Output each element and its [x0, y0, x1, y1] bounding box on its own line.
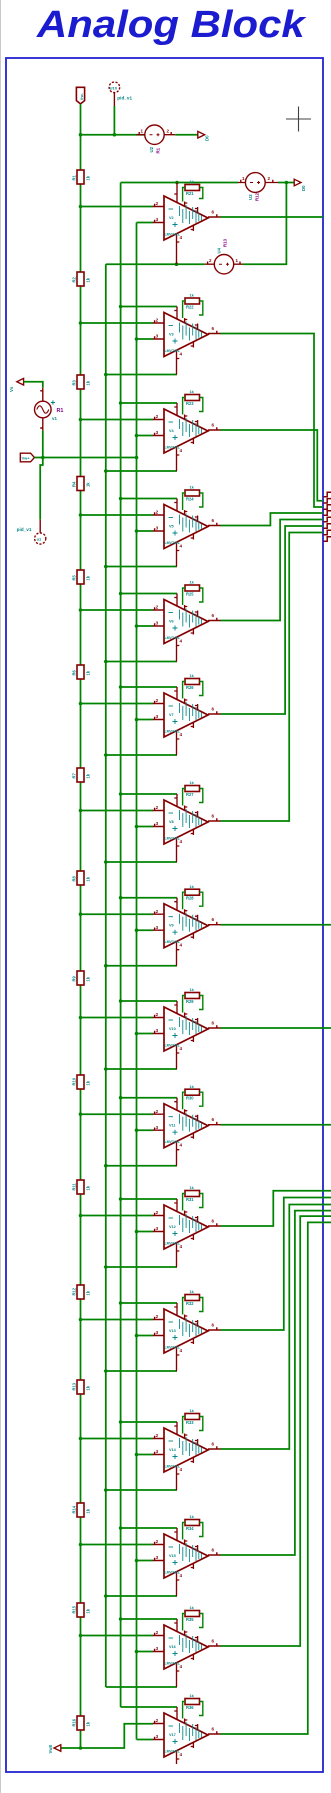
pin 2 of V16	[153, 1633, 164, 1636]
svg-text:V12: V12	[169, 1225, 176, 1229]
wire: R29 left leg	[183, 996, 185, 1013]
wire: ladder bottom to low reference	[61, 1730, 81, 1748]
pin 5 of V10	[191, 1036, 194, 1042]
svg-text:6: 6	[212, 1117, 215, 1122]
svg-text:2: 2	[156, 1630, 159, 1635]
svg-text:LMV741L: LMV741L	[165, 541, 181, 545]
pin 5 of V13	[191, 1338, 194, 1344]
wire: V- rail of V5	[106, 566, 177, 568]
pin 1 of U4	[234, 262, 243, 265]
svg-text:V11: V11	[169, 1124, 176, 1128]
svg-text:U3: U3	[248, 194, 253, 200]
op-amp V12 (LMV741)	[164, 1205, 208, 1249]
wire: R35 left leg	[183, 1614, 185, 1631]
op-amp V3 (LMV741)	[164, 313, 208, 357]
sheet pin P6 on right border	[324, 524, 331, 528]
resistor R32 (offset trim)	[185, 1289, 200, 1306]
wire: V+ rail of V5	[121, 498, 177, 500]
wire: output of V15 off-sheet right	[221, 1211, 331, 1555]
wire: R24 right leg	[199, 493, 203, 507]
svg-text:LMV741L: LMV741L	[165, 730, 181, 734]
junction: U10 on top rail	[113, 133, 117, 137]
pin 2 of V9	[153, 912, 164, 915]
wire: output of V5 to sheet pin	[221, 513, 324, 526]
svg-text:R13: R13	[223, 238, 228, 247]
junction: Vin bus at V14	[135, 1453, 139, 1457]
wire: R30 right leg	[199, 1092, 203, 1106]
op-amp V14 (LMV741)	[164, 1428, 208, 1472]
svg-text:V3: V3	[169, 333, 174, 337]
svg-text:1k: 1k	[86, 277, 91, 282]
pin 3 of V13	[153, 1333, 164, 1336]
pin 7 of V2	[174, 183, 177, 203]
wire: V- rail of V13	[106, 1370, 177, 1372]
wire: R35 right leg	[199, 1614, 203, 1628]
resistor R31 (offset trim)	[185, 1185, 200, 1202]
svg-text:2: 2	[156, 510, 159, 515]
pin 7 of V9	[174, 898, 177, 911]
op-amp V11 (LMV741)	[164, 1104, 208, 1148]
wire: ladder tap to pin2 of V7	[81, 703, 154, 705]
wire: output of V9 off-sheet right	[221, 924, 331, 926]
junction: ladder bottom node	[79, 1746, 83, 1750]
junction: pin7 of V2 on V+ rail	[175, 181, 179, 185]
wire: R27 left leg	[183, 789, 185, 806]
wire: output of V16 off-sheet right	[221, 1216, 331, 1646]
wire: V- rail of V12	[106, 1266, 177, 1268]
svg-text:LMV741L: LMV741L	[165, 1140, 181, 1144]
wire: R36 right leg	[199, 1702, 203, 1716]
pin 5 of V2	[191, 225, 194, 231]
wire: R26 left leg	[183, 682, 185, 699]
junction: Vin bus at V16	[135, 1650, 139, 1654]
pin 6 of V11	[208, 1122, 221, 1125]
junction: V- bus at V11	[104, 1164, 108, 1168]
op-amp V15 (LMV741)	[164, 1534, 208, 1578]
pin 6 of V4	[208, 427, 221, 430]
pin 8 of V12	[195, 1216, 198, 1222]
wire: flag to V1 top	[24, 382, 43, 388]
pin 3 of V2	[153, 220, 164, 223]
svg-text:LMV741L: LMV741L	[165, 1346, 181, 1350]
input flag Vs (left arrow)	[17, 378, 24, 385]
junction: Vin bus at V15	[135, 1559, 139, 1563]
screenshot left edge line	[0, 0, 1, 1793]
wire: R34 right leg	[199, 1523, 203, 1537]
resistor R11 (ladder)	[72, 1180, 91, 1194]
junction: V- bus at V10	[104, 1067, 108, 1071]
pin 4 of V15	[177, 1572, 180, 1597]
svg-text:1k: 1k	[86, 575, 91, 580]
pin 8 of V14	[195, 1439, 198, 1445]
svg-text:R23: R23	[186, 401, 194, 406]
svg-text:D0: D0	[301, 185, 306, 191]
sheet pin P3 on right border	[324, 505, 331, 509]
svg-text:V8: V8	[169, 820, 174, 824]
pin 6 of V16	[208, 1643, 221, 1646]
labels of V1	[51, 400, 55, 404]
svg-text:2: 2	[156, 605, 159, 610]
wire: Vin bus to pin3 of V9	[137, 929, 154, 931]
sheet pin P7 on right border	[324, 530, 331, 534]
svg-text:6: 6	[212, 707, 215, 712]
pin 2 of V6	[153, 607, 164, 610]
svg-text:3: 3	[156, 621, 159, 626]
wire: U3 to flag	[278, 182, 294, 184]
svg-text:LMV741L: LMV741L	[165, 636, 181, 640]
wire: R33 left leg	[183, 1417, 185, 1434]
pin 1 of U2	[136, 132, 145, 135]
pin 8 of V9	[195, 915, 198, 921]
op-amp V17 (LMV741)	[164, 1713, 208, 1757]
svg-text:3: 3	[156, 1646, 159, 1651]
svg-text:2: 2	[156, 698, 159, 703]
svg-text:2: 2	[156, 1210, 159, 1215]
resistor R29 (offset trim)	[185, 987, 200, 1004]
pin 1 of V2	[185, 202, 188, 207]
wire: output of V17 off-sheet right	[221, 1222, 331, 1734]
junction: Vin bus at V13	[135, 1334, 139, 1338]
wire: Vin bus to pin3 of V10	[137, 1033, 154, 1035]
pin 4 of V14	[177, 1466, 180, 1491]
pin 4 of V10	[177, 1045, 180, 1070]
resistor R5 (ladder)	[72, 570, 91, 584]
svg-text:1k: 1k	[86, 670, 91, 675]
wire: Vin bus to pin3 of V5	[137, 530, 154, 532]
svg-text:1k: 1k	[86, 1080, 91, 1085]
resistor R21 (offset trim)	[185, 179, 200, 196]
pin 3 of V16	[153, 1649, 164, 1652]
pin 1 of V9	[185, 909, 188, 914]
pin 5 of V9	[191, 933, 194, 939]
pin 1 of V11	[185, 1109, 188, 1114]
svg-text:2: 2	[156, 201, 159, 206]
pin 1 of V13	[185, 1315, 188, 1320]
resistor R3 (ladder)	[72, 375, 91, 389]
pin 6 of V2	[208, 214, 221, 217]
svg-text:R30: R30	[186, 1096, 194, 1101]
svg-text:6: 6	[212, 1021, 215, 1026]
wire: V+ rail of V15	[121, 1527, 177, 1529]
wire: V+ rail of V11	[121, 1097, 177, 1099]
svg-text:R4: R4	[72, 481, 77, 487]
svg-text:V10: V10	[169, 1027, 176, 1031]
sheet pin P1 on right border	[324, 492, 331, 496]
junction: V+ bus at V16	[119, 1617, 123, 1621]
svg-text:R29: R29	[186, 999, 194, 1004]
pin 5 of V8	[191, 829, 194, 835]
wire: output of V3 to sheet pin	[221, 334, 324, 508]
pin 4 of V7	[177, 731, 180, 756]
resistor R26 (offset trim)	[185, 673, 200, 690]
svg-text:1k: 1k	[86, 1290, 91, 1295]
pin 2 of V13	[153, 1317, 164, 1320]
svg-text:3: 3	[156, 821, 159, 826]
svg-text:3: 3	[156, 1125, 159, 1130]
wire: R21 right leg	[199, 188, 203, 199]
junction: V+ bus at V12	[119, 1197, 123, 1201]
op-amp V7 (LMV741)	[164, 693, 208, 737]
wire: bottom node jog to V17 pin2	[81, 1724, 154, 1748]
svg-text:R24: R24	[186, 496, 194, 501]
svg-text:U4: U4	[217, 247, 222, 253]
svg-text:3: 3	[156, 1330, 159, 1335]
svg-text:R31: R31	[186, 1197, 194, 1202]
wire: V- rail of V4	[106, 470, 177, 472]
pin 8 of V13	[195, 1320, 198, 1326]
wire: Vin bus (x=137.5)	[136, 223, 138, 1740]
svg-text:Vw0: Vw0	[48, 1744, 53, 1753]
wire: R33 right leg	[199, 1417, 203, 1431]
svg-text:Vw-: Vw-	[79, 92, 84, 100]
wire: R36 left leg	[183, 1702, 185, 1719]
svg-text:U2: U2	[149, 146, 154, 152]
junction: Vin bus at V12	[135, 1230, 139, 1234]
svg-text:3: 3	[156, 925, 159, 930]
svg-text:1k: 1k	[86, 976, 91, 981]
svg-text:LMV741L: LMV741L	[165, 1750, 181, 1754]
wire: V- supply bus (x=105.4)	[105, 264, 107, 1687]
wire: U2 to flag D0	[175, 134, 197, 136]
pin 1 of U3	[238, 180, 245, 183]
junction: ladder tap V4	[79, 418, 83, 422]
wire: Vin bus to pin3 of V14	[137, 1454, 154, 1456]
pin 4 of V16	[177, 1663, 180, 1688]
wire: Vin bus to pin3 of V13	[137, 1335, 154, 1337]
pin 5 of V16	[191, 1654, 194, 1660]
wire: R31 right leg	[199, 1194, 203, 1208]
svg-text:2: 2	[156, 805, 159, 810]
wire: ladder tap to pin2 of V8	[81, 810, 154, 812]
wire: R30 left leg	[183, 1092, 185, 1109]
pin 2 of U4	[205, 262, 215, 265]
svg-text:3: 3	[156, 1734, 159, 1739]
pin 3 of V17	[153, 1737, 164, 1740]
pin 2 of V17	[153, 1721, 164, 1724]
svg-text:3: 3	[156, 1028, 159, 1033]
junction: Vin bus at V5	[135, 529, 139, 533]
pin 5 of V17	[191, 1742, 194, 1748]
svg-text:R33: R33	[186, 1420, 194, 1425]
svg-text:V14: V14	[169, 1448, 177, 1452]
svg-text:6: 6	[212, 423, 215, 428]
pin 7 of V10	[174, 1001, 177, 1014]
global label flag D0 (right)	[294, 179, 301, 186]
wire: V- rail of V9	[106, 965, 177, 967]
resistor R25 (offset trim)	[185, 580, 200, 597]
op-amp V9 (LMV741)	[164, 904, 208, 948]
pin 2 of U3	[265, 180, 278, 183]
wire: R23 right leg	[199, 398, 203, 412]
svg-text:3: 3	[156, 334, 159, 339]
wire: V- rail of V16	[106, 1686, 177, 1688]
svg-text:Vw+: Vw+	[22, 455, 31, 460]
wire: ladder tap to pin2 of V6	[81, 609, 154, 611]
pin 4 of V8	[177, 838, 180, 863]
pin 3 of V14	[153, 1452, 164, 1455]
wire: R22 right leg	[199, 301, 203, 315]
svg-text:6: 6	[212, 1323, 215, 1328]
wire: output of V2 to sheet pin	[221, 216, 324, 218]
wire: ladder tap to pin2 of V4	[81, 419, 154, 421]
svg-text:6: 6	[212, 518, 215, 523]
global label flag D0 (top)	[198, 131, 205, 138]
wire: ladder tap to pin2 of V3	[81, 322, 154, 324]
svg-text:3: 3	[156, 430, 159, 435]
svg-text:6: 6	[212, 1219, 215, 1224]
junction: ladder tap V14	[79, 1437, 83, 1441]
pin 6 of V5	[208, 523, 221, 526]
junction: ladder tap V7	[79, 702, 83, 706]
svg-text:R11: R11	[72, 1182, 77, 1190]
wire: R32 right leg	[199, 1298, 203, 1312]
svg-text:2: 2	[156, 414, 159, 419]
pin 1 of V3	[185, 318, 188, 323]
pin 6 of V6	[208, 618, 221, 621]
wire: output of V10 off-sheet right	[221, 1027, 331, 1029]
svg-text:1k: 1k	[86, 1385, 91, 1390]
junction: V+ bus at V6	[119, 592, 123, 596]
svg-text:6: 6	[212, 326, 215, 331]
wire: R26 right leg	[199, 682, 203, 696]
svg-text:R14: R14	[72, 1505, 77, 1513]
wire: V+ rail of V6	[121, 593, 177, 595]
pin 5 of V15	[191, 1563, 194, 1569]
pin: U10 down	[113, 93, 115, 106]
junction: V+ bus at V9	[119, 896, 123, 900]
pin 3 of V15	[153, 1558, 164, 1561]
op-amp V6 (LMV741)	[164, 600, 208, 644]
pin 4 of V3	[177, 350, 180, 375]
wire: resistor ladder chain	[80, 135, 82, 1716]
wire: V+ rail stage1 (to U3)	[121, 182, 238, 184]
resistor R16 (ladder)	[72, 1716, 91, 1730]
pin 7 of V15	[174, 1528, 177, 1541]
power symbol U1 (pid_v1, dashed circle)	[39, 520, 41, 533]
pin 5 of V12	[191, 1234, 194, 1240]
pin 1 of V8	[185, 806, 188, 811]
pin 4 of V12	[177, 1243, 180, 1268]
sheet pin P4 on right border	[324, 511, 331, 515]
svg-text:u1: u1	[37, 537, 42, 542]
resistor R6 (ladder)	[72, 665, 91, 679]
resistor R10 (ladder)	[72, 1075, 91, 1089]
wire: ladder tap to pin2 of V2	[81, 206, 154, 208]
svg-text:V9: V9	[169, 924, 174, 928]
pin 1 of V6	[185, 605, 188, 610]
junction: V+ bus at V8	[119, 792, 123, 796]
pin 7 of V12	[174, 1199, 177, 1212]
svg-text:V5: V5	[169, 525, 174, 529]
junction: ladder tap V6	[79, 608, 83, 612]
source U2 (round source symbol)	[145, 125, 164, 144]
pin 8 of V2	[195, 207, 198, 213]
pin 1 of V14	[185, 1434, 188, 1439]
pin 2 of V15	[153, 1542, 164, 1545]
op-amp V2 (LMV741)	[164, 196, 208, 240]
svg-text:1k: 1k	[86, 1508, 91, 1513]
wire: Vw+ rail	[34, 457, 136, 459]
svg-text:6: 6	[212, 613, 215, 618]
junction: V- bus at V15	[104, 1594, 108, 1598]
junction: V+ bus at V13	[119, 1301, 123, 1305]
resistor R30 (offset trim)	[185, 1084, 200, 1101]
pin 3 of V9	[153, 928, 164, 931]
pin 5 of V3	[191, 342, 194, 348]
svg-text:R25: R25	[186, 591, 194, 596]
pin 5 of V5	[191, 534, 194, 540]
pin 7 of V4	[174, 403, 177, 416]
svg-text:3: 3	[156, 1226, 159, 1231]
pin 4 of V9	[177, 941, 180, 966]
pin 2 of V10	[153, 1015, 164, 1018]
pin 1 of V16	[185, 1631, 188, 1636]
svg-text:R7: R7	[72, 773, 77, 779]
svg-text:R12: R12	[255, 192, 260, 201]
wire: Vin bus to pin3 of V17	[137, 1739, 154, 1741]
junction: V- bus at V12	[104, 1265, 108, 1269]
junction: Vw+ joins Vin bus	[135, 456, 139, 460]
pin 3 of V4	[153, 433, 164, 436]
svg-text:R16: R16	[72, 1718, 77, 1726]
junction: V- bus at V13	[104, 1369, 108, 1373]
wire: U10 to top rail	[113, 106, 115, 135]
pin 5 of V11	[191, 1133, 194, 1139]
pin 2 of V14	[153, 1436, 164, 1439]
wire: top rail (ladder top to U2)	[81, 134, 145, 136]
wire: V+ rail of V17	[121, 1706, 177, 1708]
pin 2 of V12	[153, 1213, 164, 1216]
pin 7 of V5	[174, 499, 177, 512]
svg-text:R32: R32	[186, 1301, 194, 1306]
pin 6 of V7	[208, 711, 221, 714]
svg-text:R21: R21	[186, 191, 194, 196]
junction: pin4 of V2 on V- rail	[175, 262, 179, 266]
svg-text:1k: 1k	[86, 773, 91, 778]
junction: U3 output node	[285, 181, 289, 185]
svg-text:LMV741L: LMV741L	[165, 349, 181, 353]
junction: V- bus at V6	[104, 660, 108, 664]
sine source V1	[40, 388, 43, 402]
source U3 (round source symbol)	[245, 173, 265, 193]
pin 2 of V7	[153, 701, 164, 704]
svg-text:R1: R1	[156, 147, 161, 153]
svg-text:6: 6	[212, 1548, 215, 1553]
svg-text:R28: R28	[186, 896, 194, 901]
resistor R4 (ladder)	[72, 477, 91, 491]
svg-text:3: 3	[156, 526, 159, 531]
svg-text:pid_v1: pid_v1	[117, 96, 132, 101]
op-amp V8 (LMV741)	[164, 800, 208, 844]
pin 7 of V7	[174, 687, 177, 700]
wire: output of V7 to sheet pin	[221, 526, 324, 714]
pin 7 of V6	[174, 594, 177, 607]
svg-text:1k: 1k	[86, 1185, 91, 1190]
resistor R8 (ladder)	[72, 871, 91, 885]
wire: V+ rail of V7	[121, 686, 177, 688]
svg-text:R35: R35	[186, 1617, 194, 1622]
svg-text:R15: R15	[72, 1605, 77, 1613]
svg-text:6: 6	[212, 814, 215, 819]
op-amp V4 (LMV741)	[164, 409, 208, 453]
wire: output of V6 to sheet pin	[221, 520, 324, 621]
wire: Vin bus to pin3 of V12	[137, 1231, 154, 1233]
junction: V- bus at V5	[104, 565, 108, 569]
junction: V+ bus at V7	[119, 685, 123, 689]
svg-text:v1: v1	[52, 416, 57, 421]
svg-text:R2: R2	[72, 277, 77, 283]
resistor R24 (offset trim)	[185, 485, 200, 502]
